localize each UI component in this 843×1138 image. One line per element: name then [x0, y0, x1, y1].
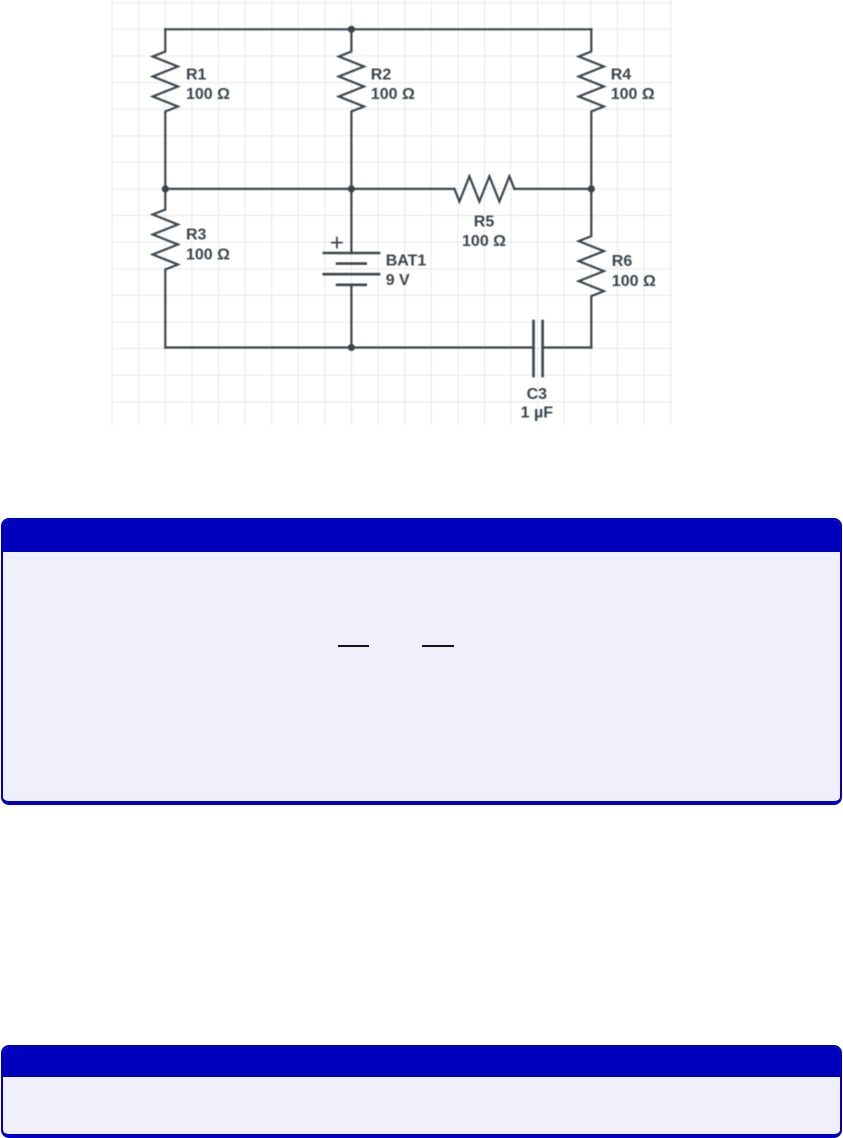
node dot middle-center junction	[348, 185, 355, 192]
circuit schematic	[111, 0, 672, 430]
battery BAT1 wires	[350, 189, 352, 348]
battery plus sign	[332, 238, 342, 248]
svg-text:R3: R3	[186, 227, 207, 244]
resistor R3	[153, 189, 178, 348]
battery BAT1 long plate 1	[324, 252, 379, 255]
svg-text:100 Ω: 100 Ω	[371, 86, 415, 103]
wire bottom rail right of C3	[543, 346, 592, 348]
svg-text:R1: R1	[186, 67, 207, 84]
resistor R2	[339, 29, 364, 189]
wire middle rail left of R5	[165, 188, 454, 190]
svg-text:R6: R6	[612, 253, 633, 270]
node dot bottom battery junction	[348, 344, 355, 351]
svg-text:100 Ω: 100 Ω	[186, 246, 230, 263]
battery BAT1 short plate 2	[337, 283, 366, 286]
node dot top R2 junction	[348, 26, 355, 33]
svg-text:1 µF: 1 µF	[521, 405, 554, 422]
battery BAT1 long plate 2	[324, 273, 379, 276]
svg-text:R2: R2	[371, 67, 392, 84]
resistor R6	[579, 189, 604, 348]
resistor R4	[579, 29, 604, 189]
svg-text:R4: R4	[611, 67, 632, 84]
node dot middle-left junction	[162, 185, 169, 192]
svg-text:100 Ω: 100 Ω	[611, 86, 655, 103]
svg-text:C3: C3	[527, 386, 548, 403]
resistor R1	[153, 29, 178, 189]
wire top rail	[165, 28, 591, 30]
svg-text:100 Ω: 100 Ω	[612, 273, 656, 290]
svg-text:9 V: 9 V	[386, 272, 410, 289]
theorem box 2	[1, 1045, 842, 1138]
node dot middle-right junction	[588, 185, 595, 192]
capacitor C3 plate right	[541, 321, 544, 376]
svg-text:100 Ω: 100 Ω	[462, 233, 506, 250]
fraction bar 2	[422, 645, 454, 647]
svg-text:100 Ω: 100 Ω	[186, 86, 230, 103]
wire middle rail right of R5	[514, 188, 591, 190]
svg-text:BAT1: BAT1	[386, 252, 427, 269]
wire bottom rail left of C3	[165, 346, 533, 348]
theorem box 1	[1, 518, 842, 805]
fraction bar 1	[338, 645, 369, 647]
battery BAT1 short plate 1	[337, 262, 366, 265]
svg-text:R5: R5	[474, 214, 495, 231]
capacitor C3 plate left	[532, 321, 535, 376]
resistor R5	[454, 176, 514, 201]
